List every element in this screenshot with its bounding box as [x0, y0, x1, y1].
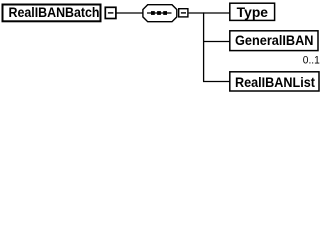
svg-text:RealIBANBatch: RealIBANBatch: [9, 5, 100, 20]
element box RealIBANList: [230, 72, 319, 91]
svg-text:0..1: 0..1: [303, 54, 320, 66]
wire from sequence to Type: [189, 12, 230, 14]
svg-text:Type: Type: [237, 5, 269, 20]
collapse box (minus) at RealIBANBatch: [105, 7, 116, 18]
element box GeneralIBAN: [230, 31, 318, 51]
svg-text:GeneralIBAN: GeneralIBAN: [235, 33, 314, 48]
vertical trunk wire: [203, 12, 205, 81]
stub wire to GeneralIBAN: [203, 41, 230, 43]
stub wire to RealIBANList: [203, 81, 230, 83]
sequence compositor symbol: [143, 5, 177, 22]
collapse box (minus) at sequence: [179, 9, 188, 17]
wire from collapse box to sequence: [116, 12, 143, 14]
element box RealIBANBatch: [3, 5, 101, 22]
svg-text:RealIBANList: RealIBANList: [235, 75, 315, 90]
element box Type: [230, 3, 275, 20]
